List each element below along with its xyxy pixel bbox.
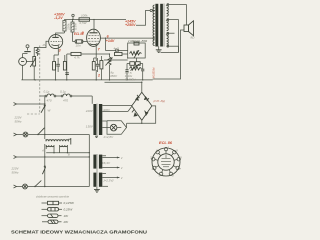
input jack terminal xyxy=(24,45,30,52)
resistor R5 on feedback line xyxy=(109,49,128,56)
svg-text:220k: 220k xyxy=(66,23,70,31)
svg-text:(z Pr.-Ny): (z Pr.-Ny) xyxy=(153,99,165,103)
legend resistor 0,25W xyxy=(42,208,74,212)
resistor R1 anode load xyxy=(56,20,66,35)
svg-text:A: A xyxy=(41,149,44,153)
svg-text:470: 470 xyxy=(47,98,52,102)
svg-text:2×2,8V: 2×2,8V xyxy=(103,135,115,139)
svg-text:SCHEMAT IDEOWY WZMACNIACZA GRA: SCHEMAT IDEOWY WZMACNIACZA GRAMOFONU xyxy=(11,230,148,235)
shield dashed line xyxy=(27,46,40,115)
switch arm W1 xyxy=(41,105,52,113)
heater arrow 1 xyxy=(102,156,123,160)
tube V1 triode xyxy=(49,35,63,49)
capacitor C10 vertical xyxy=(141,64,144,80)
svg-text:ECL 86: ECL 86 xyxy=(159,141,173,145)
speaker xyxy=(153,5,195,80)
resistor R2 to coupling cap xyxy=(66,19,77,42)
svg-text:220V: 220V xyxy=(85,109,94,113)
label 220V 50Hz lower xyxy=(11,167,20,175)
voltage label red mid-rail xyxy=(125,20,136,27)
selector winding A xyxy=(41,145,54,153)
svg-text:GŁOŚN: GŁOŚN xyxy=(125,76,136,81)
pilot lamp L1 xyxy=(102,121,126,139)
wire bus vertical x44.8 xyxy=(44,95,45,187)
wire selector bottom xyxy=(46,152,89,153)
svg-text:+14V: +14V xyxy=(106,39,115,43)
ground under output transformer xyxy=(156,46,162,52)
wire bridge right return xyxy=(127,106,156,123)
selector winding B xyxy=(60,145,70,156)
svg-text:100k: 100k xyxy=(81,14,88,18)
tone control box P2 xyxy=(128,42,146,62)
mains terminal T3 xyxy=(14,156,90,159)
svg-text:+250V: +250V xyxy=(125,23,136,27)
svg-text:6,3V: 6,3V xyxy=(104,161,111,165)
secondary line y82 xyxy=(104,81,106,83)
ground under transformer xyxy=(94,187,100,192)
wire network mid xyxy=(104,57,128,60)
resistor R6 V1 cathode + capacitor C3 xyxy=(53,49,60,80)
pickup cartridge G xyxy=(19,54,31,80)
wire V2 anode to output transformer xyxy=(100,37,155,39)
wire B+ top rail xyxy=(64,9,155,25)
svg-text:10n: 10n xyxy=(76,43,81,47)
wire transformer left bus xyxy=(89,135,90,187)
svg-text:0,1µ: 0,1µ xyxy=(44,90,50,94)
potentiometer P1 volume xyxy=(30,48,36,80)
svg-text:dodatkowe oznaczenia oporników: dodatkowe oznaczenia oporników xyxy=(36,195,70,199)
transformer TR main upper windings xyxy=(85,104,111,136)
svg-text:470: 470 xyxy=(63,98,68,102)
svg-text:3: 3 xyxy=(59,49,61,53)
svg-text:2M: 2M xyxy=(42,43,48,47)
tone network input cap C8 xyxy=(105,38,128,53)
wire bridge bottom xyxy=(141,120,142,124)
svg-text:0,5M: 0,5M xyxy=(74,23,78,30)
svg-text:130V: 130V xyxy=(86,125,94,129)
wire bridge plus up xyxy=(105,82,143,93)
resistor R4 grid leak line xyxy=(67,52,110,61)
capacitor C9 vertical xyxy=(125,64,128,80)
wire V2 grid xyxy=(86,41,88,43)
svg-text:50Hz: 50Hz xyxy=(12,171,20,175)
ground rail main xyxy=(21,79,152,80)
svg-text:0,5W: 0,5W xyxy=(80,21,88,25)
resistor R9 box next to V2 cathode xyxy=(97,56,103,80)
svg-text:50Hz: 50Hz xyxy=(15,120,23,124)
resistor R7 + capacitor C4 lower pair xyxy=(63,55,69,80)
bridge rectifier xyxy=(132,92,152,120)
resistor R10 grid stopper xyxy=(34,48,38,57)
svg-text:B: B xyxy=(68,153,70,157)
mains terminal T2 with fuse B1 xyxy=(14,128,90,137)
wire HV tap 2 xyxy=(102,107,131,112)
transformer TR lower windings xyxy=(93,154,102,187)
ground mark dn xyxy=(95,136,98,137)
svg-text:PROSTOW: PROSTOW xyxy=(152,68,156,79)
legend resistor 2W xyxy=(42,220,69,224)
selector transformer primary xyxy=(46,138,71,145)
tube socket diagram ECL86 xyxy=(150,141,182,178)
voltage label red top-left xyxy=(54,13,65,20)
svg-text:350V: 350V xyxy=(110,74,118,78)
heater arrow 2 xyxy=(102,166,123,170)
svg-text:9: 9 xyxy=(82,31,84,35)
wire V1 grid input xyxy=(34,41,49,47)
svg-text:4,7k: 4,7k xyxy=(74,55,80,59)
heater label 6,3V xyxy=(102,161,111,165)
label 220V 50Hz upper xyxy=(14,116,23,124)
node test point on rail xyxy=(72,14,74,20)
output transformer TR2 xyxy=(153,4,164,47)
svg-text:2: 2 xyxy=(97,73,100,77)
mains terminal T1 xyxy=(14,103,46,106)
svg-text:4n7: 4n7 xyxy=(114,47,119,51)
legend resistor 0,125W xyxy=(42,201,76,205)
heater arrow 3 xyxy=(102,173,123,179)
gray notes network xyxy=(110,71,136,82)
svg-text:[≈2,5V]: [≈2,5V] xyxy=(103,179,114,183)
heater label 2,5V xyxy=(102,179,113,187)
capacitor C2 coupling xyxy=(73,40,87,48)
tone trimmer P4 xyxy=(127,62,143,71)
svg-text:-1,2V: -1,2V xyxy=(54,16,63,20)
svg-text:2: 2 xyxy=(155,149,158,153)
secondary winding taps xyxy=(166,4,187,48)
switch arm W2 on bus xyxy=(42,166,45,174)
capacitor C6 on line y96 xyxy=(40,90,56,103)
svg-text:0,25W: 0,25W xyxy=(64,208,74,212)
red pin marks V2 xyxy=(82,31,110,52)
svg-text:0,125W: 0,125W xyxy=(64,201,76,205)
wire secondary bus xyxy=(161,20,179,53)
mains terminal T4 with fuse B2 xyxy=(14,181,90,189)
tube V2 pentode xyxy=(87,29,101,48)
wire V2 screen to rail xyxy=(93,19,94,29)
capacitor C7 on line y96 xyxy=(56,90,92,104)
svg-text:0,1µ: 0,1µ xyxy=(60,90,66,94)
resistor R3 screen 100k xyxy=(79,14,90,25)
resistor R8 V2 cathode + capacitor C5 xyxy=(92,48,99,80)
legend resistor 1W xyxy=(42,214,70,218)
wire HV tap 1 xyxy=(102,104,131,106)
potentiometer P3 xyxy=(106,54,113,80)
svg-text:z REGUL-80R: z REGUL-80R xyxy=(127,39,148,43)
